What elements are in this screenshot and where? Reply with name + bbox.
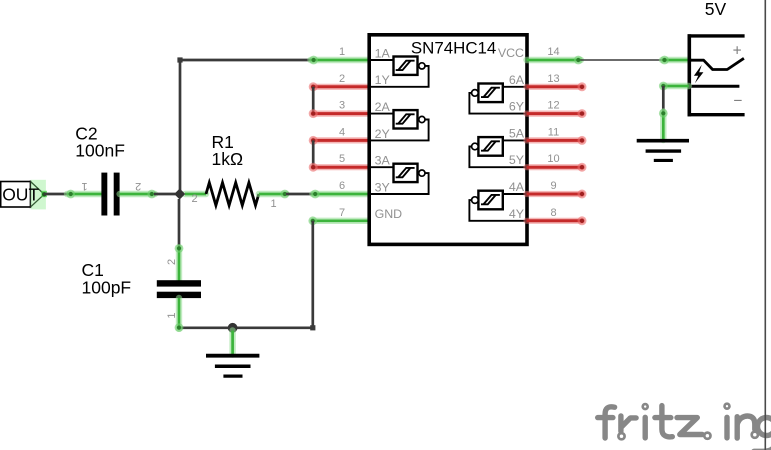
wire pin2 1Y (red) — [309, 82, 370, 91]
wire pin8 (red stub) — [527, 216, 587, 225]
svg-text:1: 1 — [166, 313, 178, 319]
svg-text:2: 2 — [135, 180, 141, 192]
svg-text:10: 10 — [547, 153, 559, 165]
wire pin3 2A (red) — [309, 109, 370, 118]
wire minus vertical lower (green) — [659, 109, 668, 140]
svg-text:5Y: 5Y — [509, 153, 524, 167]
IC pin numbers — [339, 46, 560, 219]
wire pin11 (red stub) — [527, 136, 587, 145]
wire to pin1 1A (green) — [309, 56, 370, 65]
svg-text:7: 7 — [339, 207, 345, 219]
wire pin4-pin5 vertical (black) — [312, 140, 315, 167]
IC pin labels — [375, 46, 525, 221]
power supply 5V — [688, 0, 745, 116]
wire pin14 VCC to supply (green) — [527, 56, 583, 65]
wire OUT to C2 (green) — [66, 190, 101, 199]
wire OUT to C2 (black) — [44, 193, 68, 196]
wire to pin6 3Y (green) — [311, 190, 370, 199]
svg-text:3: 3 — [339, 100, 345, 112]
svg-text:12: 12 — [547, 100, 559, 112]
svg-text:14: 14 — [547, 46, 559, 58]
svg-text:6A: 6A — [509, 73, 525, 87]
svg-text:GND: GND — [375, 207, 403, 221]
svg-text:−: − — [733, 93, 742, 110]
wire pin12 (red stub) — [527, 109, 587, 118]
node junction C2/R1/C1 — [174, 188, 185, 199]
svg-text:13: 13 — [547, 73, 559, 85]
svg-text:6: 6 — [339, 180, 345, 192]
svg-text:OUT: OUT — [2, 185, 39, 205]
wire pin10 (red stub) — [527, 163, 587, 172]
wire junction to C1 (black) — [179, 326, 233, 329]
svg-text:11: 11 — [548, 126, 559, 138]
svg-text:5: 5 — [339, 153, 345, 165]
svg-text:5A: 5A — [509, 126, 525, 140]
frame right edge — [764, 0, 766, 450]
op-amp U1 SN74HC14 body — [369, 35, 527, 245]
node junction GND — [228, 323, 238, 333]
svg-text:2: 2 — [191, 193, 197, 205]
svg-text:8: 8 — [550, 207, 556, 219]
svg-text:1: 1 — [270, 198, 276, 210]
svg-text:VCC: VCC — [498, 46, 524, 60]
inverter gate 3 (left) — [371, 164, 429, 194]
svg-text:1kΩ: 1kΩ — [212, 149, 244, 169]
ground (left) — [206, 331, 259, 377]
svg-text:1: 1 — [81, 180, 87, 192]
wire pin5 3A (red) — [309, 163, 370, 172]
inverter gate 5 (right) — [469, 137, 525, 167]
svg-text:100nF: 100nF — [75, 140, 125, 160]
svg-text:2A: 2A — [375, 100, 391, 114]
svg-text:1: 1 — [339, 46, 345, 58]
inverter gate 1 (left) — [371, 57, 429, 87]
svg-text:4A: 4A — [509, 180, 525, 194]
svg-text:1A: 1A — [375, 46, 391, 60]
svg-text:3A: 3A — [375, 154, 391, 168]
capacitor C1 100pF — [82, 199, 202, 332]
svg-text:SN74HC14: SN74HC14 — [411, 38, 496, 57]
ground (right) — [637, 141, 689, 161]
inverter gate 2 (left) — [371, 110, 429, 140]
watermark fritzing — [598, 404, 771, 450]
svg-text:9: 9 — [550, 180, 556, 192]
svg-text:2: 2 — [339, 73, 345, 85]
wire pin4 2Y (red) — [309, 136, 370, 145]
svg-text:+: + — [733, 43, 742, 60]
wire pin9 (red stub) — [527, 190, 587, 199]
svg-text:3Y: 3Y — [375, 180, 390, 194]
wire minus vertical (black) — [662, 86, 665, 113]
inverter gate 4 (right) — [469, 191, 525, 221]
svg-text:100pF: 100pF — [82, 278, 132, 298]
svg-text:4Y: 4Y — [509, 207, 524, 221]
svg-text:1Y: 1Y — [375, 73, 390, 87]
wire C2 to junction (green) — [120, 190, 157, 199]
resistor R1 1k&#937; — [185, 132, 289, 210]
wire C2 to junction (black) — [154, 193, 176, 196]
wire pin2-pin3 vertical (black) — [312, 87, 315, 114]
wire VCC to supply plus (green) — [660, 56, 689, 65]
wire supply minus to ground (green) — [659, 82, 689, 91]
net label OUT — [1, 180, 47, 210]
svg-text:6Y: 6Y — [509, 100, 524, 114]
svg-text:2Y: 2Y — [375, 127, 390, 141]
wire pin13 (red stub) — [527, 82, 587, 91]
svg-text:5V: 5V — [705, 0, 727, 19]
wire pin7 GND (green) — [308, 216, 369, 225]
wire pin7 down/left (black) — [233, 221, 316, 331]
svg-text:2: 2 — [166, 259, 178, 265]
inverter gate 6 (right) — [469, 84, 525, 114]
wire junction up to pin1 (black) — [177, 57, 311, 194]
capacitor C2 100nF — [75, 123, 141, 215]
svg-text:4: 4 — [339, 126, 345, 138]
wire R1 to pin6 (black) — [286, 193, 314, 196]
wire VCC middle (thin black) — [581, 59, 664, 61]
